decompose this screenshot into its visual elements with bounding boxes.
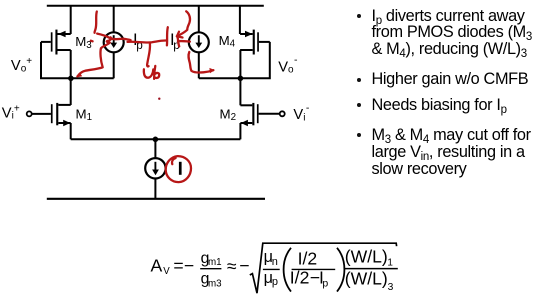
red text Ub <box>144 69 153 77</box>
node: tail junction <box>153 137 159 143</box>
bullet 1 text <box>372 8 532 58</box>
wire: bottom ground rail <box>47 198 265 200</box>
wire: Ip2 node horizontal <box>199 77 241 79</box>
terminal Vi+ <box>27 111 32 116</box>
wire: M3 drain to node <box>70 50 72 78</box>
bullet 2 text <box>372 71 529 88</box>
wire: M3 source to rail <box>70 6 72 34</box>
wire: M4 source to rail <box>239 6 241 34</box>
terminal Vi- <box>280 111 285 116</box>
red stroke: vertical squiggle above Ip1 <box>95 12 97 33</box>
bullet 4 text <box>372 127 531 177</box>
red dot <box>158 98 160 100</box>
svg-text:m3: m3 <box>208 278 222 289</box>
red stroke: curl in Ip1 and drop to Vo+ node <box>77 37 111 76</box>
svg-text:3: 3 <box>388 282 394 293</box>
current source Ip1 <box>104 32 124 52</box>
wire: M4 gate feedback loop <box>240 42 269 78</box>
bullet 1 marker <box>357 14 361 18</box>
red stroke: hook and arrow into Ip2 <box>177 11 190 36</box>
red circled I annotation <box>166 156 191 182</box>
red stroke: vertical left of right Ip <box>166 27 169 45</box>
current source I tail <box>145 158 165 178</box>
current source Ip2 <box>189 32 209 52</box>
wire: node to Ip1 bottom <box>71 77 114 79</box>
RED ANNOTATIONS <box>76 11 214 182</box>
svg-text:−: − <box>239 256 249 276</box>
wire: M4 drain to node <box>239 50 241 78</box>
wire: junction to tail source <box>154 139 156 158</box>
svg-text:(W/L): (W/L) <box>345 247 388 267</box>
svg-text:≈: ≈ <box>227 256 237 276</box>
transistor M3 <box>41 30 71 55</box>
wire: M2 source down <box>239 123 241 139</box>
svg-text:p: p <box>322 277 328 289</box>
svg-text:(W/L): (W/L) <box>345 269 388 289</box>
svg-text:−: − <box>184 256 194 276</box>
bullet 3 text <box>372 97 507 114</box>
red stroke: hook from Ip2 to Vo- node <box>189 52 214 73</box>
svg-text:A: A <box>151 256 163 276</box>
transistor M1 <box>32 103 71 126</box>
formula big right paren <box>337 248 344 292</box>
wire: Ip1 to left node <box>113 52 115 78</box>
bullet 4 marker <box>357 133 361 137</box>
svg-text:m1: m1 <box>208 257 222 268</box>
wire: node to M2 drain <box>239 78 241 105</box>
red stroke: Ip2 tap marks <box>178 38 190 47</box>
red arrowhead at Vo- node <box>209 68 214 73</box>
bullet 3 marker <box>357 103 361 107</box>
svg-text:V: V <box>163 266 170 277</box>
red stroke: horizontal between Ip labels <box>128 40 167 42</box>
svg-text:=: = <box>173 256 183 276</box>
svg-text:n: n <box>272 256 278 268</box>
red arrowhead at Vo+ node <box>76 72 82 77</box>
transistor M4 <box>240 30 270 55</box>
node: Vo- output <box>238 76 244 82</box>
wire: Ip1 top feed <box>113 6 115 33</box>
wire: node to M1 drain <box>70 78 72 105</box>
wire: tail to ground rail <box>154 179 156 199</box>
formula radical <box>250 243 397 293</box>
label I tail <box>179 162 182 175</box>
svg-text:p: p <box>272 276 278 288</box>
wire: Ip2 to right node <box>198 52 200 78</box>
wire: M3 gate feedback loop <box>41 42 71 78</box>
wire: M1 source down <box>70 123 72 139</box>
bullet 2 marker <box>357 78 361 82</box>
node: Vo+ output <box>68 76 74 82</box>
wire: Ip2 top feed <box>198 6 200 33</box>
red stroke: drop toward Ub <box>147 44 150 67</box>
transistor M2 <box>240 103 279 126</box>
red stroke through Ip1 circle <box>97 34 130 41</box>
svg-text:I/2: I/2 <box>290 267 310 287</box>
svg-text:1: 1 <box>387 257 393 268</box>
svg-text:I/2: I/2 <box>298 249 318 269</box>
red tick left of Ip1 <box>91 40 93 43</box>
wire: VDD top rail <box>47 5 264 7</box>
wire: common source rail <box>71 138 241 140</box>
formula big left paren <box>284 248 291 292</box>
